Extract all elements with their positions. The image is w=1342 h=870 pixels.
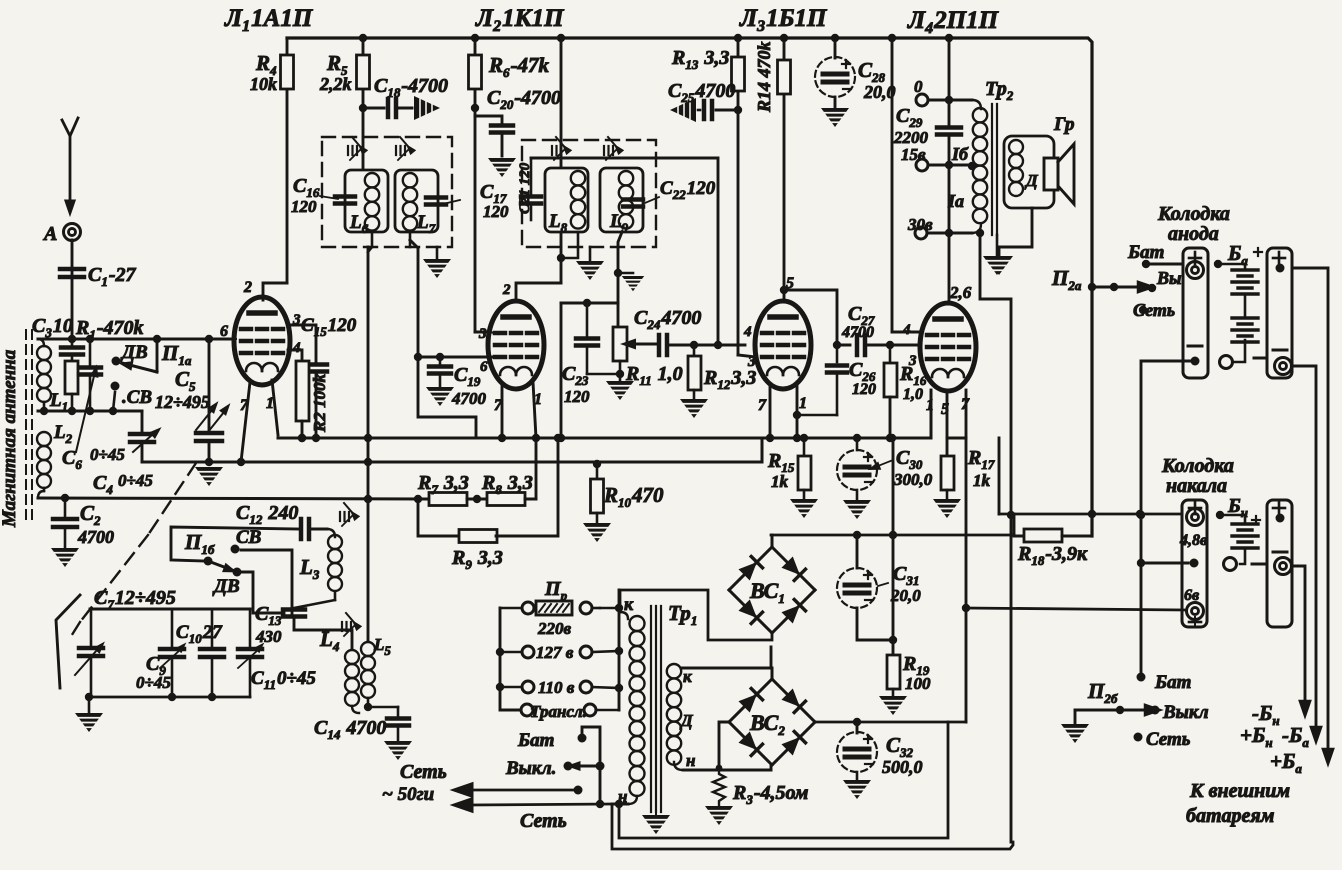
svg-text:Л31Б1П: Л31Б1П xyxy=(739,5,828,35)
svg-text:4: 4 xyxy=(902,322,911,338)
svg-text:30в: 30в xyxy=(907,215,933,234)
svg-text:К внешним: К внешним xyxy=(1189,780,1290,802)
svg-text:120: 120 xyxy=(852,381,876,398)
svg-text:0÷45: 0÷45 xyxy=(90,445,125,464)
svg-text:7: 7 xyxy=(240,397,249,414)
svg-text:4,8в: 4,8в xyxy=(1179,532,1207,549)
svg-text:1k: 1k xyxy=(771,472,789,491)
svg-text:Д: Д xyxy=(679,711,694,730)
svg-text:Колодка: Колодка xyxy=(1157,203,1230,225)
svg-text:Выкл.: Выкл. xyxy=(505,758,556,779)
svg-text:120: 120 xyxy=(564,387,590,406)
svg-text:Д: Д xyxy=(1024,171,1039,190)
svg-text:3: 3 xyxy=(478,326,487,342)
svg-text:C14 4700: C14 4700 xyxy=(314,717,386,742)
svg-text:1: 1 xyxy=(266,395,274,412)
svg-text:0÷45: 0÷45 xyxy=(136,673,171,692)
svg-text:15в: 15в xyxy=(901,145,926,164)
svg-text:R7 3,3: R7 3,3 xyxy=(417,472,469,497)
svg-text:R8 3,3: R8 3,3 xyxy=(481,472,533,497)
svg-text:127 в: 127 в xyxy=(536,643,574,662)
svg-text:C310: C310 xyxy=(32,315,73,340)
svg-text:Iа: Iа xyxy=(947,191,964,211)
svg-text:Бат: Бат xyxy=(517,730,554,751)
svg-text:Л42П1П: Л42П1П xyxy=(907,7,1000,37)
svg-text:430: 430 xyxy=(255,627,282,646)
svg-text:Выкл: Выкл xyxy=(1162,702,1209,723)
svg-text:C110÷45: C110÷45 xyxy=(251,668,316,692)
svg-text:Iб: Iб xyxy=(951,144,969,164)
svg-text:накала: накала xyxy=(1166,475,1227,497)
svg-text:6: 6 xyxy=(480,359,488,375)
svg-text:C12 240: C12 240 xyxy=(236,502,298,527)
svg-text:4700: 4700 xyxy=(77,527,114,547)
svg-text:C18-4700: C18-4700 xyxy=(374,75,448,100)
svg-text:6: 6 xyxy=(220,323,228,340)
svg-text:7: 7 xyxy=(758,397,767,414)
svg-text:2,6: 2,6 xyxy=(949,283,972,302)
svg-text:120: 120 xyxy=(291,197,317,216)
svg-text:C244700: C244700 xyxy=(634,307,701,332)
svg-text:н: н xyxy=(686,751,695,770)
svg-text:R6-47k: R6-47k xyxy=(488,53,550,80)
svg-text:батареям: батареям xyxy=(1186,805,1275,827)
svg-text:Гр: Гр xyxy=(1053,114,1074,135)
svg-text:R14 470k: R14 470k xyxy=(754,41,774,113)
svg-text:R1-470k: R1-470k xyxy=(75,317,144,342)
svg-text:C254700: C254700 xyxy=(668,80,735,105)
svg-text:.СВ: .СВ xyxy=(122,387,152,408)
svg-text:Л21К1П: Л21К1П xyxy=(475,5,565,35)
svg-text:20,0: 20,0 xyxy=(890,586,921,605)
svg-text:Бат: Бат xyxy=(1127,242,1164,263)
svg-text:R3-4,5ом: R3-4,5ом xyxy=(732,782,809,807)
svg-text:Бат: Бат xyxy=(1154,672,1191,693)
svg-text:C20-4700: C20-4700 xyxy=(487,87,561,112)
svg-text:Магнитная антенна: Магнитная антенна xyxy=(0,349,20,528)
svg-text:4: 4 xyxy=(292,340,301,356)
svg-text:Л11А1П: Л11А1П xyxy=(224,5,314,35)
svg-text:Трансл.: Трансл. xyxy=(530,702,587,721)
svg-text:110 в: 110 в xyxy=(538,678,575,697)
svg-text:к: к xyxy=(624,594,634,614)
svg-text:R18-3,9к: R18-3,9к xyxy=(1017,543,1088,568)
svg-text:1: 1 xyxy=(799,395,807,412)
svg-text:R13 3,3: R13 3,3 xyxy=(671,47,729,72)
svg-text:Сеть: Сеть xyxy=(1133,300,1175,320)
svg-text:120: 120 xyxy=(483,202,509,221)
svg-text:10k: 10k xyxy=(250,74,277,94)
svg-text:4700: 4700 xyxy=(451,389,487,408)
svg-text:Колодка: Колодка xyxy=(1161,455,1234,477)
svg-text:2: 2 xyxy=(243,279,252,296)
svg-text:R9 3,3: R9 3,3 xyxy=(451,547,503,572)
svg-text:4: 4 xyxy=(743,324,752,340)
svg-text:ДВ: ДВ xyxy=(120,342,148,363)
svg-text:R11 1,0: R11 1,0 xyxy=(625,363,683,388)
svg-text:Сеть: Сеть xyxy=(400,761,447,783)
svg-text:4700: 4700 xyxy=(841,324,874,341)
svg-text:3: 3 xyxy=(292,312,301,328)
svg-text:анода: анода xyxy=(1168,223,1219,245)
svg-text:к: к xyxy=(683,667,692,686)
svg-text:C15120: C15120 xyxy=(301,315,357,339)
svg-text:1k: 1k xyxy=(973,471,991,490)
svg-text:C1-27: C1-27 xyxy=(88,264,137,289)
svg-text:R2 100k: R2 100k xyxy=(310,373,329,433)
svg-text:2,2k: 2,2k xyxy=(319,74,352,94)
svg-text:Сеть: Сеть xyxy=(520,810,567,832)
svg-text:R10470: R10470 xyxy=(603,483,664,510)
svg-text:220в: 220в xyxy=(537,619,572,638)
svg-text:0: 0 xyxy=(914,77,923,96)
svg-text:12÷495: 12÷495 xyxy=(155,392,210,412)
svg-text:СВ: СВ xyxy=(236,527,261,548)
svg-text:3: 3 xyxy=(908,353,917,369)
svg-text:ДВ: ДВ xyxy=(212,576,240,597)
svg-text:2: 2 xyxy=(502,282,511,298)
svg-text:~ 50ги: ~ 50ги xyxy=(382,784,434,805)
svg-text:Сеть: Сеть xyxy=(1146,729,1191,750)
svg-text:300,0: 300,0 xyxy=(893,470,933,489)
svg-text:C22120: C22120 xyxy=(660,178,716,202)
svg-text:А: А xyxy=(42,223,57,245)
svg-text:1,0: 1,0 xyxy=(903,386,923,403)
svg-text:0÷45: 0÷45 xyxy=(118,471,153,490)
svg-text:500,0: 500,0 xyxy=(882,757,923,777)
svg-text:100: 100 xyxy=(905,674,931,693)
